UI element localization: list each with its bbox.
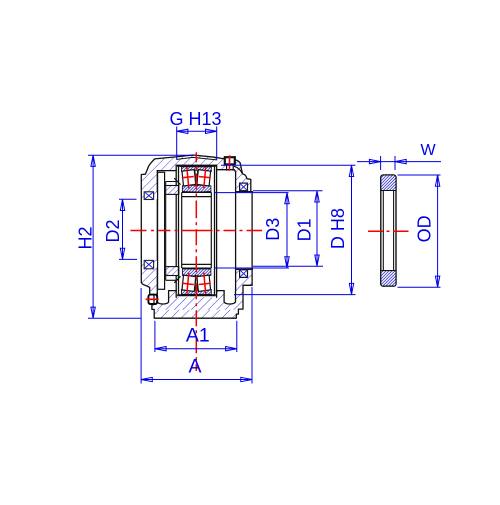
W arrows (outside) bbox=[369, 159, 380, 163]
right top step outline bbox=[240, 163, 251, 191]
flinger washer bbox=[158, 172, 165, 289]
grease groove line bbox=[177, 157, 217, 160]
dimension A bbox=[141, 287, 252, 384]
G H13 arrows bbox=[177, 129, 188, 133]
H2 arrows bbox=[91, 155, 95, 166]
bolt slot right bbox=[224, 291, 235, 304]
flange shoulder segments bbox=[169, 290, 225, 292]
grub screw block bbox=[148, 295, 157, 304]
outer profile top bbox=[141, 155, 240, 282]
bottom outer ring band bbox=[182, 290, 212, 295]
rollers top bbox=[182, 170, 211, 292]
dimension D2 bbox=[119, 199, 137, 259]
ring centerline bbox=[368, 230, 409, 232]
arrowheads bbox=[91, 129, 440, 382]
dimension D1 line bbox=[316, 191, 318, 266]
svg-text:G H13: G H13 bbox=[169, 109, 221, 129]
dimension W bbox=[357, 156, 441, 170]
top inner ring band bbox=[182, 185, 211, 192]
stack bottom line bbox=[177, 294, 216, 296]
dimension H2 bbox=[88, 155, 194, 318]
cavity walls vertical bbox=[176, 165, 216, 297]
seal x-boxes in cover bbox=[144, 192, 153, 269]
housing hatched body (upper ring: cover+roof+right wall) bbox=[141, 155, 251, 287]
top outer ring band bbox=[182, 167, 212, 172]
svg-text:OD: OD bbox=[415, 215, 435, 242]
svg-text:W: W bbox=[420, 142, 436, 159]
D1 arrows bbox=[315, 191, 319, 202]
dimension D1 extensions bbox=[253, 191, 323, 266]
bottom seal line right lower bbox=[237, 268, 253, 270]
red centerline horizontal main bbox=[131, 230, 263, 232]
right inner wall vertical bbox=[235, 172, 237, 291]
D H8 arrows bbox=[349, 165, 353, 176]
right cavity ceiling bbox=[217, 170, 236, 172]
D3 arrows bbox=[285, 193, 289, 204]
seal x-boxes right wall bbox=[240, 183, 248, 277]
roof ceiling left cavity bbox=[157, 170, 176, 172]
red centerline vertical main bbox=[195, 152, 197, 371]
D2 arrows bbox=[120, 199, 124, 210]
dimension A1 bbox=[155, 321, 237, 352]
cover inner face bbox=[156, 171, 158, 288]
dimension D3 extensions bbox=[214, 193, 289, 268]
bore edges bbox=[182, 192, 212, 268]
roof ceiling over cartridge bbox=[176, 164, 216, 166]
A1 arrows bbox=[155, 347, 166, 351]
A arrows bbox=[141, 377, 152, 381]
housing outline strokes bbox=[141, 155, 252, 318]
svg-text:D1: D1 bbox=[295, 218, 315, 241]
svg-text:D H8: D H8 bbox=[328, 208, 348, 249]
locating ring (right component) bbox=[368, 175, 409, 286]
svg-text:A1: A1 bbox=[186, 325, 210, 347]
stack top line bbox=[177, 165, 216, 167]
dimension D H8 bbox=[221, 165, 356, 294]
svg-text:H2: H2 bbox=[76, 226, 96, 249]
svg-text:A: A bbox=[188, 356, 201, 378]
ring side faces bbox=[179, 166, 215, 295]
right protrusion face bbox=[251, 192, 253, 286]
red grub screw line bbox=[146, 298, 159, 300]
base plate coarser hatch bbox=[154, 310, 236, 318]
roller red centermarks bbox=[182, 168, 211, 294]
svg-text:D2: D2 bbox=[103, 219, 123, 242]
lock washer tabs bbox=[174, 178, 180, 283]
bottom right steps bbox=[141, 282, 252, 318]
OD arrows bbox=[435, 175, 439, 186]
bolt slot left bbox=[157, 287, 168, 304]
dimension OD bbox=[398, 175, 441, 287]
svg-text:D3: D3 bbox=[263, 218, 283, 241]
inner casting curve bbox=[234, 166, 242, 173]
dimension G H13 bbox=[177, 127, 217, 161]
bottom inner ring band bbox=[182, 269, 211, 276]
bearing cartridge column bbox=[177, 166, 216, 295]
dimension D3 line bbox=[286, 193, 288, 268]
seal pocket bottom line right bbox=[237, 191, 253, 193]
grease nipple bbox=[225, 155, 235, 171]
cage bars bbox=[195, 171, 198, 186]
housing flange hatched bbox=[150, 269, 252, 318]
adapter sleeve lines bbox=[182, 197, 212, 265]
locknut bbox=[166, 178, 181, 283]
